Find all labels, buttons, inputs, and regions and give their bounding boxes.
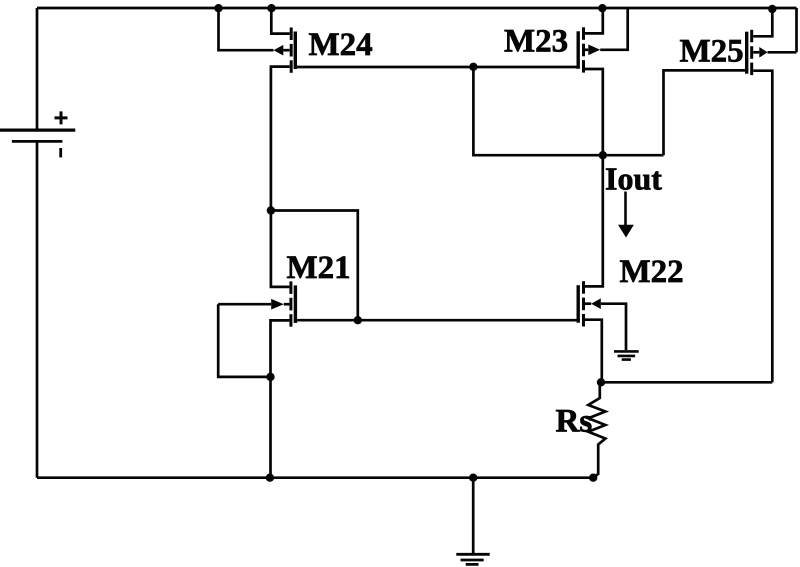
transistor M23 body arrow (PMOS): [588, 45, 600, 56]
transistor M25 gate bar: [745, 32, 748, 74]
svg-text:M24: M24: [309, 27, 373, 63]
transistor M23 gate bar: [577, 31, 580, 69]
battery V1 plate negative: [12, 140, 63, 143]
wire VDD top rail: [37, 7, 797, 10]
wire M21 source lead to bottom rail: [271, 320, 290, 477]
wire M24 source to rail: [271, 8, 289, 34]
wire M21 body down and to source: [218, 304, 270, 377]
battery V1 plate positive: [0, 129, 75, 132]
svg-text:M25: M25: [680, 34, 744, 70]
svg-text:Iout: Iout: [605, 160, 662, 196]
wire M24 drain lead: [271, 67, 290, 211]
svg-text:M23: M23: [504, 23, 568, 59]
node gate drop junction: [469, 63, 477, 71]
wire battery to bottom rail: [36, 141, 39, 477]
node Rs top junction: [597, 378, 605, 386]
wire M22 body to local ground: [601, 304, 626, 350]
wire M22 source down to Rs node: [585, 320, 602, 383]
resistor Rs: [588, 382, 605, 477]
node M24 drain / M21 drain junction: [267, 206, 275, 214]
svg-text:Rs: Rs: [556, 404, 593, 440]
wire M23 source to rail: [585, 8, 603, 33]
wire mirror node up to M25 gate: [664, 70, 746, 155]
wire ground bottom rail: [37, 476, 597, 479]
transistor M23 channel contacts: [582, 27, 585, 72]
ground M22 body: [614, 351, 639, 359]
transistor M21 body arrow (NMOS): [271, 299, 284, 310]
transistor M25 channel contacts: [750, 30, 753, 75]
wire M25 drain down to Rs node: [753, 71, 772, 383]
transistor M24 channel contacts: [290, 28, 293, 73]
node VDD rail junctions: [214, 4, 222, 12]
wire gate line M21-M22: [297, 319, 576, 322]
wire M23 body to rail: [600, 8, 628, 50]
wire M21 body: [218, 303, 271, 306]
wire gate line M24-M23: [297, 66, 577, 69]
transistor M25 body arrow (PMOS): [759, 47, 767, 58]
node Iout junction: [599, 151, 607, 159]
wire M22 body arrow stub: [585, 302, 591, 305]
wire left supply column: [36, 8, 39, 129]
wire M24 body to rail: [219, 8, 274, 50]
wire Rs node to M25 drain column: [601, 381, 772, 384]
transistor M21 gate bar: [294, 285, 297, 323]
wire M24 body arrow stub: [283, 49, 289, 52]
wire diode-connect M21: node right and down to gate line: [271, 211, 358, 321]
wire ground stem: [472, 478, 475, 554]
transistor M24 body arrow (PMOS): [274, 45, 284, 56]
transistor M24 gate bar: [294, 32, 297, 70]
node Rs bottom junction: [589, 474, 597, 482]
transistor M22 body arrow (NMOS): [591, 298, 601, 309]
node on gate line: [354, 316, 362, 324]
wire M23 drain down to Iout node and M22 drain: [585, 69, 603, 286]
battery V1 minus tick: [59, 148, 62, 157]
arrow Iout current direction: [624, 192, 627, 227]
battery V1 plus sign: [55, 111, 68, 124]
wire M25 body arrow stub: [753, 51, 759, 54]
svg-text:M21: M21: [287, 250, 351, 286]
ground main: [456, 554, 489, 564]
transistor M21 channel contacts: [289, 281, 292, 326]
node ground junction on bottom rail: [469, 474, 477, 482]
transistor M22 channel contacts: [582, 281, 585, 326]
node M21 body-source junction: [266, 373, 274, 381]
wire M25 source to rail: [753, 9, 772, 36]
wire gate node down to mirror node: [473, 67, 663, 155]
wire M25 body to rail right edge: [768, 8, 797, 52]
svg-text:M22: M22: [620, 254, 684, 290]
wire M23 body arrow stub: [585, 48, 588, 51]
transistor M22 gate bar: [577, 285, 580, 323]
wire M21 drain lead: [271, 211, 290, 287]
wire M25 gate line: [664, 69, 746, 72]
wire M21 body arrow stub: [284, 303, 290, 306]
node left column bottom rail junction: [266, 474, 274, 482]
